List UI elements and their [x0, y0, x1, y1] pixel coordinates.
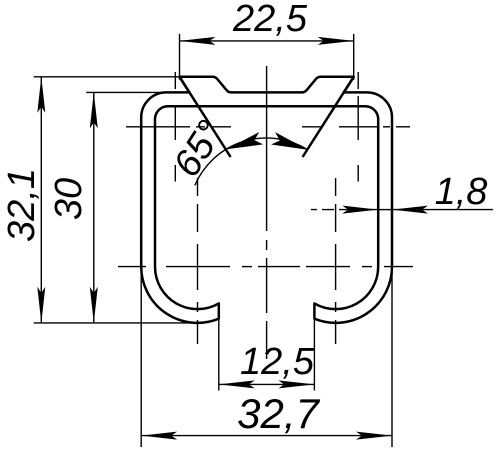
dimension 12,5 extension lines: [218, 319, 220, 391]
right funnel lip 65-degree line: [303, 77, 354, 157]
centerline horizontal upper left part: [126, 126, 231, 128]
svg-text:30: 30: [48, 178, 90, 220]
dimension 65 degrees arc: [195, 138, 308, 185]
dimension 22,5 extension lines: [179, 34, 181, 80]
65 deg arc arrowhead left: [227, 132, 264, 149]
svg-text:22,5: 22,5: [232, 0, 308, 40]
svg-text:12,5: 12,5: [240, 341, 315, 383]
centerline vertical right foot: [335, 178, 337, 196]
65 deg arc arrowhead right: [271, 132, 308, 150]
svg-text:32,7: 32,7: [237, 390, 320, 437]
svg-text:32,1: 32,1: [1, 168, 43, 242]
dimension 22,5 line: [180, 40, 354, 42]
dimension 12,5 line: [219, 383, 315, 385]
dimension 32,1 line: [40, 77, 42, 323]
centerline vertical middle: [266, 66, 268, 231]
dimension 30 line: [93, 92, 95, 323]
dimension 1,8 leader (wall thickness): [311, 209, 378, 211]
dimension 32,7 line: [141, 435, 392, 437]
profile outline (C-channel track cross-section): [141, 77, 392, 323]
svg-text:1,8: 1,8: [435, 171, 488, 213]
left funnel lip 65-degree line: [180, 77, 231, 157]
dimension 32,1 extension lines: [34, 76, 180, 78]
centerline vertical left lip: [174, 72, 176, 89]
centerline horizontal lower (foot axis): [118, 266, 146, 268]
centerline vertical right lip: [357, 72, 359, 89]
dimension 30 extension line: [86, 91, 189, 93]
centerline horizontal upper right part: [302, 126, 321, 128]
centerline vertical left foot: [197, 178, 199, 196]
dimension 32,7 extension lines: [140, 267, 142, 447]
